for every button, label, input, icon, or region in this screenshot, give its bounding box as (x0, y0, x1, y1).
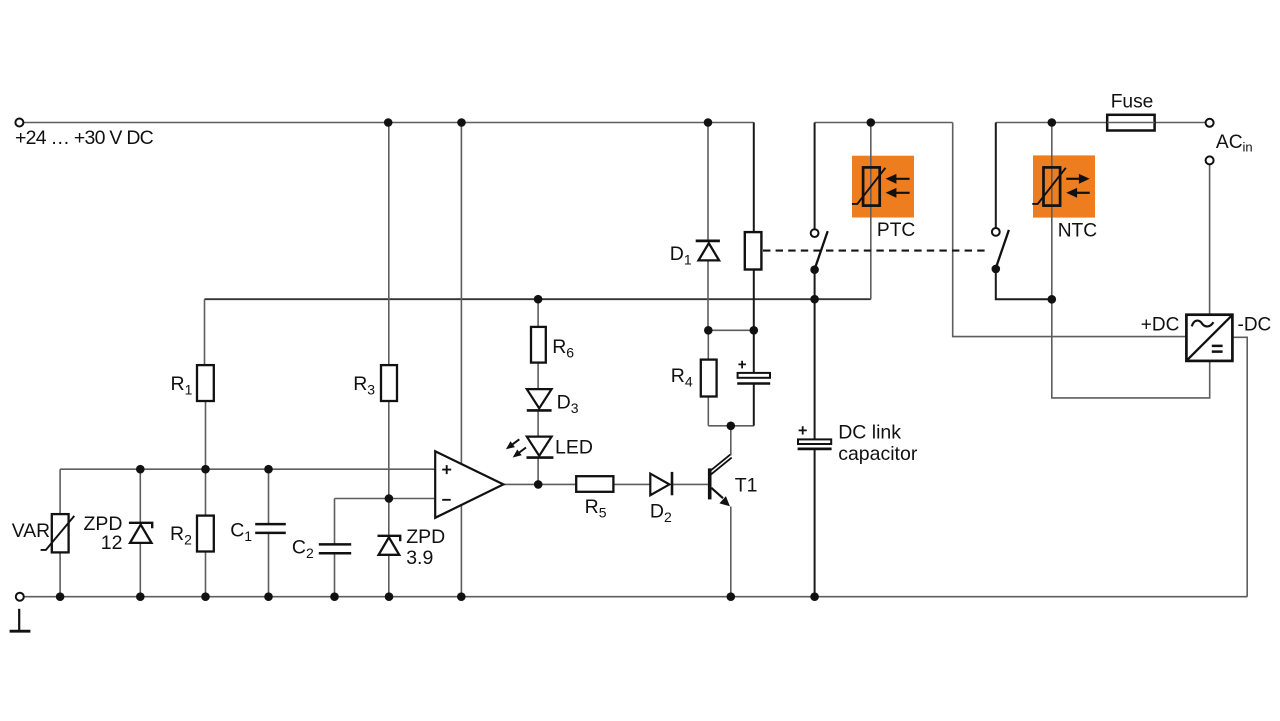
resistor R6 (531, 327, 546, 363)
junction: bottom rail / C2 (330, 592, 339, 601)
junction: NTC switch blade bottom (992, 265, 1001, 274)
resistor R5 (576, 476, 613, 492)
wire: top rail segment B (switch to +DC drop) (815, 122, 953, 124)
junction: R4/C7 bottom to T1 collector (727, 422, 736, 431)
wire: C2 column (334, 499, 336, 597)
svg-text:T1: T1 (735, 475, 758, 497)
wire: D1 column (707, 123, 709, 331)
dashed relay linkage line (763, 250, 988, 252)
NTC switch contact S2 (992, 228, 1009, 268)
wire: R1 top riser (204, 299, 206, 365)
wire: AC-side top rail (996, 122, 1206, 124)
wire: ACin lower terminal down to converter top (1209, 165, 1211, 315)
wire: R1-R2 column (205, 401, 207, 597)
wire: PTC switch column and DC link column (814, 123, 816, 597)
wire: R3 ZPD3.9 column (388, 123, 390, 597)
junction: bottom rail / DC link capacitor (810, 592, 819, 601)
junction: NTC switch line / NTC column (1048, 295, 1057, 304)
junction: bottom rail / VAR (56, 592, 65, 601)
junction: bottom rail / supply column (457, 592, 466, 601)
NTC orange highlight box (1033, 155, 1095, 217)
svg-text:Fuse: Fuse (1111, 91, 1154, 112)
terminal ACin bottom (1206, 156, 1214, 164)
svg-text:DC link: DC link (838, 422, 901, 444)
wire: supply column x=461 (460, 123, 462, 597)
wire: D1 bottom to coil bottom link (708, 329, 754, 331)
junction: mid bus / PTC switch column (810, 295, 819, 304)
junction: top rail / supply column (457, 118, 466, 127)
ground symbol (18, 609, 20, 630)
svg-text:3.9: 3.9 (406, 547, 433, 569)
PTC orange highlight box (852, 156, 914, 218)
wire: NTC switch column (996, 123, 1052, 300)
svg-text:12: 12 (101, 532, 123, 554)
NTC thermistor symbol (1032, 167, 1089, 205)
junction: plus line / ZPD12 (136, 465, 145, 474)
LED emission arrows (506, 439, 526, 457)
svg-text:+DC: +DC (1141, 315, 1180, 336)
wire: converter right to -DC down to bottom rail (1232, 337, 1247, 596)
junction: top rail / R3 column (384, 118, 393, 127)
wire: NTC column through NTC box (1051, 123, 1053, 300)
svg-text:capacitor: capacitor (838, 443, 918, 465)
wire: T1 emitter drop (730, 507, 732, 597)
terminal ACin top (1206, 119, 1214, 127)
DC link capacitor (798, 426, 832, 449)
wire: PTC column (870, 123, 872, 300)
diode D3 (527, 389, 552, 410)
wire: C1 column (268, 469, 270, 597)
diode LED (527, 437, 554, 458)
junction: bottom rail / ZPD12 (136, 592, 145, 601)
terminal ground (16, 593, 24, 601)
wire: R4 column (707, 330, 709, 426)
junction: mid bus / R6 column (534, 295, 543, 304)
junction: op-amp output / LED column (534, 480, 543, 489)
wire: +DC feed down and right to converter (953, 123, 1187, 337)
capacitor C7 polarized beside R4 (737, 361, 770, 384)
svg-text:-DC: -DC (1238, 315, 1272, 336)
svg-text:NTC: NTC (1058, 220, 1098, 241)
junction: D1 bottom / R4 top (704, 326, 713, 335)
diode D2 (650, 472, 672, 495)
junction: bottom rail / T1 emitter (727, 592, 736, 601)
resistor R4 (701, 360, 717, 397)
svg-text:+24 … +30 V DC: +24 … +30 V DC (15, 127, 154, 149)
wire: +24V top rail (23, 122, 753, 124)
wire: mid horizontal bus y=299 (205, 298, 871, 300)
junction: plus line / C1 (264, 465, 273, 474)
wire: R4/C7 bottom join (708, 425, 754, 427)
op-amp U1 (435, 451, 503, 518)
junction: rail B / PTC column (867, 118, 876, 127)
svg-text:LED: LED (555, 436, 593, 458)
wire: R5 to D2 (613, 483, 650, 485)
svg-text:ZPD: ZPD (406, 526, 445, 548)
svg-text:VAR: VAR (12, 521, 50, 542)
junction: plus line / R1 R2 (201, 465, 210, 474)
junction: bottom rail / C1 (264, 592, 273, 601)
PTC thermistor symbol (852, 167, 910, 205)
wire: op-amp output to R5 (503, 483, 576, 485)
zener ZPD 12 (129, 523, 152, 543)
zener ZPD 3.9 (378, 536, 401, 555)
wire: plus-input line y=469 (60, 468, 435, 470)
fuse F1 (1107, 115, 1154, 131)
varistor VAR (41, 514, 75, 552)
wire: VAR column (59, 469, 61, 597)
junction: PTC switch blade bottom (810, 265, 819, 274)
wire: minus-input line y=498.5 (335, 498, 436, 500)
junction: top rail / D1 column (704, 118, 713, 127)
wire: R6 D3 LED column (537, 299, 539, 484)
resistor R2 (197, 516, 214, 552)
transistor T1 (710, 455, 732, 507)
resistor R3 (381, 365, 397, 401)
junction: minus line / R3 ZPD3.9 (385, 494, 394, 503)
converter AC/DC box (1186, 315, 1232, 361)
wire: converter bottom to NTC column (1052, 299, 1210, 398)
wire: bottom ground rail (24, 596, 1247, 598)
capacitor C2 (319, 544, 351, 553)
junction: bottom rail / ZPD3.9 (385, 592, 394, 601)
wire: D2 to T1 base (672, 483, 708, 485)
junction: coil bottom / C7 top (750, 326, 759, 335)
junction: bottom rail / R2 (201, 592, 210, 601)
relay coil K1 (745, 232, 762, 269)
wire: ZPD12 column (139, 469, 141, 597)
diode D1 (696, 241, 720, 261)
resistor R1 (197, 365, 214, 401)
wire: relay coil column (753, 123, 755, 426)
terminal +24V (15, 119, 23, 127)
capacitor C1 (255, 524, 286, 533)
wire: T1 collector riser (730, 426, 732, 456)
svg-text:PTC: PTC (877, 220, 916, 241)
PTC switch contact S1 (811, 229, 828, 269)
junction: AC rail / NTC column (1048, 118, 1057, 127)
